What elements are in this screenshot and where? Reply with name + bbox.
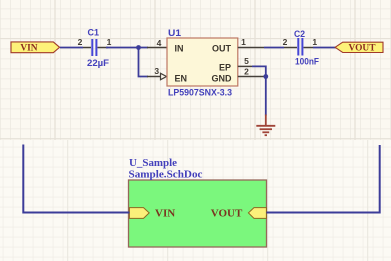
- EN input triangle: [161, 73, 167, 79]
- svg-text:VIN: VIN: [20, 44, 37, 54]
- sheet entry VIN: [129, 208, 149, 219]
- svg-text:2: 2: [78, 37, 83, 47]
- junction node: [136, 45, 141, 50]
- svg-text:1: 1: [107, 37, 112, 47]
- svg-text:C1: C1: [88, 28, 100, 39]
- capacitor C2 pin 2: [284, 47, 297, 49]
- wire C1 to U1: [106, 47, 148, 49]
- svg-text:1: 1: [312, 37, 317, 47]
- svg-text:IN: IN: [175, 44, 184, 54]
- port VOUT: [335, 42, 383, 53]
- svg-text:VOUT: VOUT: [349, 44, 377, 54]
- capacitor C1: [91, 39, 97, 56]
- ground: [256, 115, 275, 136]
- svg-text:5: 5: [244, 56, 249, 66]
- wire left to sheet VIN: [23, 145, 129, 213]
- svg-text:LP5907SNX-3.3: LP5907SNX-3.3: [168, 88, 232, 99]
- pin 1 OUT: [238, 47, 264, 49]
- svg-text:OUT: OUT: [212, 44, 232, 54]
- junction node on GND: [263, 74, 268, 79]
- capacitor C2 pin 1: [304, 47, 314, 49]
- svg-text:2: 2: [244, 66, 249, 76]
- pin 2 GND: [238, 76, 266, 78]
- pin 4 IN: [147, 47, 167, 49]
- wire junction down to EN: [139, 48, 149, 77]
- capacitor C2: [297, 38, 303, 56]
- wire VIN to C1: [60, 47, 83, 49]
- svg-text:GND: GND: [212, 74, 233, 84]
- svg-text:1: 1: [241, 37, 246, 47]
- pin 3 EN: [147, 76, 161, 78]
- svg-text:4: 4: [157, 38, 162, 48]
- svg-text:EP: EP: [219, 63, 231, 73]
- svg-text:VIN: VIN: [155, 207, 175, 219]
- sheet entry VOUT: [248, 208, 266, 219]
- wire OUT to C2: [264, 47, 284, 49]
- svg-text:3: 3: [154, 66, 159, 76]
- IC U1 body (LP5907 regulator): [167, 38, 238, 86]
- capacitor C1 pin 1: [98, 47, 109, 49]
- svg-text:C2: C2: [294, 29, 305, 40]
- svg-text:100nF: 100nF: [295, 57, 319, 68]
- svg-text:22µF: 22µF: [87, 58, 109, 69]
- port VIN: [11, 42, 60, 54]
- wire sheet VOUT to right: [266, 145, 379, 213]
- wire C2 to VOUT: [313, 47, 336, 49]
- svg-text:VOUT: VOUT: [211, 207, 243, 219]
- sheet symbol U_Sample: [129, 180, 267, 247]
- svg-text:2: 2: [283, 37, 288, 47]
- wire EP down to GND net: [252, 66, 266, 115]
- svg-text:U_Sample: U_Sample: [129, 157, 177, 169]
- svg-text:U1: U1: [168, 28, 182, 39]
- pin 5 EP: [238, 65, 252, 67]
- capacitor C1 pin 2: [83, 47, 91, 49]
- svg-text:EN: EN: [175, 74, 188, 84]
- svg-text:Sample.SchDoc: Sample.SchDoc: [129, 169, 203, 181]
